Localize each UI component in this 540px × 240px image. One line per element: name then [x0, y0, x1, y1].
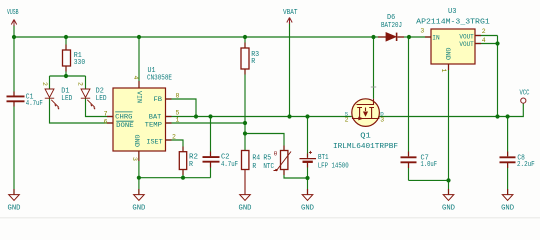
svg-text:330: 330: [74, 59, 85, 67]
ground U1: [132, 195, 145, 213]
svg-text:3: 3: [380, 117, 384, 124]
wire R1 top lead: [65, 37, 67, 50]
svg-text:2: 2: [41, 82, 48, 86]
wire VUSB rail: [14, 36, 374, 38]
junction GND3-bus: [137, 176, 141, 180]
svg-text:2: 2: [76, 82, 83, 86]
power flag VBAT: [287, 18, 292, 25]
wire C2 column: [210, 117, 212, 178]
ground C1: [8, 195, 21, 213]
wire VBAT drop: [289, 22, 291, 117]
wire D1 anode: [49, 76, 51, 89]
LED D1: [45, 89, 59, 107]
junction FB-BAT: [194, 114, 198, 118]
bottom frame line: [0, 216, 540, 219]
wire node to R5: [245, 134, 284, 151]
svg-text:VBAT: VBAT: [283, 9, 298, 17]
svg-text:Q1: Q1: [360, 133, 371, 141]
wire D6 cathode lead: [398, 36, 410, 38]
svg-text:VIN: VIN: [135, 91, 143, 103]
svg-text:3: 3: [420, 28, 424, 35]
svg-text:1.0uF: 1.0uF: [421, 161, 438, 169]
power flag VCC: [521, 98, 526, 103]
junction R1-LEDs: [64, 74, 68, 78]
svg-text:2: 2: [172, 133, 176, 140]
svg-text:2.2uF: 2.2uF: [517, 161, 535, 169]
LED D2: [81, 89, 95, 107]
wire C7 column: [408, 37, 410, 180]
resistor R2: [179, 152, 186, 170]
junction C7-U3gnd: [446, 178, 450, 182]
ground BT1: [301, 195, 314, 213]
svg-text:ISET: ISET: [146, 139, 162, 147]
svg-text:3: 3: [131, 157, 138, 161]
svg-text:GND: GND: [239, 205, 252, 213]
svg-text:FB: FB: [154, 96, 163, 104]
wire TEMP: [166, 122, 246, 124]
wire bottom bus left: [139, 177, 211, 179]
svg-text:GND: GND: [132, 135, 140, 148]
junction R3-R4-R5: [243, 131, 247, 135]
junction VUSB-R3: [243, 35, 247, 39]
svg-text:NTC: NTC: [263, 163, 274, 171]
svg-text:GND: GND: [501, 205, 514, 213]
wire R1 bottom lead: [65, 66, 67, 76]
wire R5 bottom to BT1 gnd: [284, 170, 308, 179]
wire R4 gnd stem: [244, 170, 246, 195]
junction BT1-BAT: [305, 114, 309, 118]
resistor R3: [241, 48, 249, 69]
svg-text:7: 7: [104, 111, 108, 118]
svg-text:4: 4: [132, 76, 139, 80]
wire C8 column: [507, 117, 509, 195]
svg-text:θ: θ: [274, 150, 278, 157]
svg-text:R4: R4: [252, 155, 260, 163]
svg-text:GND: GND: [442, 205, 455, 213]
junction VOUT-VCC rail: [495, 114, 499, 118]
svg-text:D6: D6: [387, 14, 395, 22]
wire C1 gnd stem: [13, 102, 15, 195]
svg-text:LFP 14500: LFP 14500: [318, 163, 349, 171]
svg-text:R5: R5: [263, 155, 271, 163]
diode D6: [386, 33, 396, 41]
ground C8: [501, 195, 514, 213]
svg-text:4.7uF: 4.7uF: [26, 100, 43, 108]
svg-text:VOUT: VOUT: [459, 41, 473, 49]
wire U3 GND drop: [448, 64, 450, 194]
svg-text:BT1: BT1: [318, 154, 329, 162]
svg-text:8: 8: [176, 93, 180, 100]
wire BAT rail: [166, 116, 352, 118]
junction TEMP-R3: [243, 121, 247, 125]
junction VUSB-VIN: [137, 35, 141, 39]
svg-text:GND: GND: [132, 205, 145, 213]
wire D1 cathode to DONE: [50, 98, 114, 123]
wire D6 anode lead: [374, 36, 386, 38]
wire LED top bus: [50, 75, 86, 77]
wire R4 top lead: [244, 134, 246, 151]
svg-text:2: 2: [345, 117, 349, 124]
ground R4: [239, 195, 252, 213]
wire U1 GND pin drop: [138, 151, 140, 178]
svg-text:GND: GND: [301, 205, 314, 213]
wire D2 anode: [85, 76, 87, 89]
wire U3 VOUT pins tie: [475, 36, 498, 117]
capacitor C2: [203, 157, 220, 162]
wire C7 gnd link: [409, 179, 449, 181]
wire VCC rail: [379, 103, 523, 116]
wire U1 VIN drop: [138, 37, 140, 88]
svg-text:R: R: [189, 161, 194, 169]
regulator U3 body: [431, 29, 475, 64]
thermistor R5: [281, 151, 288, 170]
junction R5-BT1-gnd: [305, 176, 309, 180]
junction R2-bus: [181, 176, 185, 180]
junction VUSB-R1: [64, 35, 68, 39]
pin stubs (maroon overlays): [14, 36, 508, 195]
svg-text:BAT: BAT: [149, 113, 162, 121]
wire Q1 gate drop: [373, 37, 375, 99]
wire R3 to TEMP node: [244, 69, 246, 134]
resistor R4: [242, 151, 249, 170]
svg-text:4.7uF: 4.7uF: [221, 161, 238, 169]
battery BT1: [300, 151, 317, 162]
wire R3 top lead: [244, 37, 246, 48]
wire FB loop: [166, 99, 197, 117]
resistor R1: [63, 50, 71, 66]
capacitor C7: [401, 157, 417, 162]
svg-text:R: R: [251, 58, 256, 66]
svg-text:VUSB: VUSB: [7, 9, 19, 17]
svg-text:TEMP: TEMP: [145, 122, 162, 130]
svg-text:IRLML6401TRPBF: IRLML6401TRPBF: [333, 143, 398, 151]
junction D6-IN-C7: [407, 35, 411, 39]
power flag VUSB: [11, 20, 16, 27]
svg-text:BAT20J: BAT20J: [381, 22, 402, 30]
capacitor C8: [500, 157, 516, 162]
svg-text:AP2114M-3_3TRG1: AP2114M-3_3TRG1: [416, 18, 490, 26]
svg-text:1: 1: [176, 116, 180, 123]
svg-text:6: 6: [104, 118, 108, 125]
ground U3: [442, 195, 455, 213]
junction C8-VCC rail: [506, 114, 510, 118]
wire R2 bottom: [182, 170, 184, 178]
junction VUSB-gate-D6: [371, 35, 375, 39]
svg-text:IN: IN: [432, 34, 439, 42]
svg-text:VCC: VCC: [520, 90, 530, 98]
wire ISET to R2: [166, 140, 184, 152]
svg-text:CHRG: CHRG: [115, 113, 132, 121]
wire C1 drop: [13, 25, 15, 96]
IC U1 CN3058E body: [113, 88, 166, 151]
wire BT1 bottom lead: [307, 163, 309, 195]
wire U3 IN pin: [409, 36, 431, 38]
svg-text:U3: U3: [448, 8, 457, 16]
transistor Q1: [352, 99, 380, 127]
svg-text:2: 2: [482, 28, 486, 35]
capacitor C1: [7, 96, 25, 101]
junction C2-BAT: [208, 114, 212, 118]
svg-text:DONE: DONE: [116, 122, 133, 130]
wire BT1 top lead: [307, 117, 309, 158]
svg-text:LED: LED: [61, 95, 72, 103]
svg-text:R: R: [252, 163, 256, 171]
svg-text:LED: LED: [96, 95, 107, 103]
junction VOUT tie: [495, 41, 499, 45]
svg-text:GND: GND: [443, 48, 451, 61]
junction VBAT-BAT: [287, 114, 291, 118]
gate pin tick: [371, 86, 376, 88]
svg-text:GND: GND: [8, 205, 21, 213]
wire U1 gnd stem: [138, 178, 140, 195]
wire D2 cathode to CHRG: [86, 98, 114, 116]
junction VUSB-C1: [12, 35, 16, 39]
svg-text:4: 4: [482, 37, 486, 44]
svg-text:1: 1: [440, 69, 447, 73]
svg-text:CN3058E: CN3058E: [147, 75, 172, 83]
